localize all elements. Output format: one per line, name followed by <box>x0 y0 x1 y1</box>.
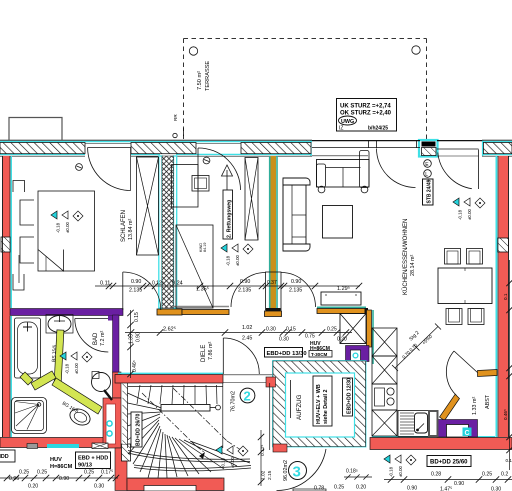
bed <box>38 191 95 271</box>
elevator label box HUV+ELV <box>313 376 332 426</box>
chartreuse pipe to wc <box>52 378 102 414</box>
purple washing machine diele niche <box>346 346 370 362</box>
svg-text:b/h24/25: b/h24/25 <box>368 126 388 132</box>
kitchen diagonal dimension <box>392 324 441 372</box>
bottom exterior wall red right (kitchen) <box>370 438 512 450</box>
left exterior wall red <box>1 156 11 437</box>
floor badge 3 <box>289 462 307 480</box>
corridor closet 1 <box>172 165 199 208</box>
elevator shaft cyan boundary <box>273 361 366 447</box>
rettungsweg arrow <box>222 165 233 177</box>
stair left wall hatch pier <box>122 444 131 461</box>
BD+DD 25/60 box kitchen bottom <box>427 456 471 467</box>
terrace corner circle right <box>412 46 420 54</box>
svg-text:76.70m2: 76.70m2 <box>231 391 237 412</box>
svg-text:EBD+DD 12/30: EBD+DD 12/30 <box>347 378 353 414</box>
door: diele double doors at olive wall <box>231 273 266 308</box>
kitchen cabinet column X boxes <box>372 328 397 356</box>
circle symbol corridor <box>203 157 210 164</box>
dimension chain upper (y=286) <box>95 285 360 287</box>
nightstand lower <box>20 237 34 263</box>
svg-text:96.02m2: 96.02m2 <box>283 460 289 481</box>
svg-text:2. Rettungsweg: 2. Rettungsweg <box>227 200 233 238</box>
svg-text:UK STURZ =+2,74: UK STURZ =+2,74 <box>340 104 391 110</box>
svg-text:0.90: 0.90 <box>291 279 301 285</box>
dimension vertical chain right edge <box>509 260 511 470</box>
svg-text:1.35⁵: 1.35⁵ <box>196 286 209 293</box>
svg-text:C: C <box>465 430 470 437</box>
nightstand upper <box>20 200 34 225</box>
svg-text:1.47⁵: 1.47⁵ <box>440 487 452 491</box>
svg-text:EBD + HDD: EBD + HDD <box>78 456 108 462</box>
top wall hatch band mid <box>131 143 196 154</box>
bottom labels: HDD box far left <box>0 450 15 462</box>
coffee table <box>323 206 353 239</box>
schlafen closet top-left <box>13 181 25 193</box>
svg-text:0.17⁵: 0.17⁵ <box>101 470 113 476</box>
uk sturz box <box>337 99 397 132</box>
chartreuse pipe lower diagonal <box>31 371 56 390</box>
chairs <box>445 249 485 325</box>
svg-text:1.29⁵: 1.29⁵ <box>337 285 350 292</box>
abst orange stub north <box>440 370 498 421</box>
chartreuse pipe vertical <box>20 330 102 414</box>
svg-text:0.96: 0.96 <box>9 476 19 482</box>
top wall outline lines <box>0 139 312 141</box>
orange sill wohnen/kitchen <box>317 306 366 308</box>
purple wall bath east <box>113 315 120 372</box>
landing rect sliver bottom <box>293 489 326 491</box>
svg-text:0.25: 0.25 <box>334 485 344 491</box>
svg-text:0.18⁵: 0.18⁵ <box>346 469 358 475</box>
floor badge 2 <box>240 388 255 403</box>
kitchen X box lower <box>372 410 397 436</box>
svg-text:SCHLAFEN: SCHLAFEN <box>121 210 127 242</box>
stairs handrail bar <box>161 405 210 412</box>
elevation marker bad <box>60 352 92 374</box>
dimension vertical chain stair right x=261 <box>260 430 262 486</box>
svg-text:0.75: 0.75 <box>305 334 315 340</box>
bottom exterior wall red left (bath) <box>0 438 118 448</box>
stairs left fan treads <box>128 393 251 478</box>
stairs upper flight treads <box>128 385 223 404</box>
svg-text:BD+DD 25/60: BD+DD 25/60 <box>430 460 468 466</box>
small dim kitchen bottom <box>344 476 372 478</box>
svg-text:BAD: BAD <box>93 332 99 345</box>
svg-text:0.1: 0.1 <box>503 293 508 300</box>
dresser below bed <box>13 274 24 290</box>
bath right red wall <box>113 372 122 398</box>
svg-text:HUV+ELV + WB: HUV+ELV + WB <box>316 384 322 424</box>
svg-text:2.135: 2.135 <box>238 288 251 294</box>
svg-text:0.90: 0.90 <box>136 332 142 342</box>
dimension vertical chain x=130.5 <box>130 310 132 378</box>
doors: corridor terrace door <box>197 148 199 190</box>
svg-text:0.90: 0.90 <box>407 486 417 491</box>
svg-text:AUFZUG: AUFZUG <box>296 394 303 420</box>
svg-text:STB 24/49: STB 24/49 <box>427 179 433 203</box>
svg-text:90/13: 90/13 <box>78 463 92 469</box>
svg-text:0.20: 0.20 <box>28 484 38 490</box>
stair walking line dash-dot <box>142 388 244 452</box>
bad wc <box>67 406 92 428</box>
svg-text:2.62⁵: 2.62⁵ <box>163 326 176 333</box>
svg-text:0.11: 0.11 <box>100 281 110 287</box>
svg-text:0.90: 0.90 <box>454 481 464 487</box>
svg-text:7.86 m²: 7.86 m² <box>208 342 214 360</box>
chimney outline top-left <box>9 118 62 141</box>
abst purple washer <box>437 420 478 438</box>
elevator red blocks <box>266 377 276 387</box>
svg-text:2.135: 2.135 <box>289 288 302 294</box>
stove <box>372 384 397 410</box>
stairwell left red wall <box>115 448 127 491</box>
svg-text:0.46⁵: 0.46⁵ <box>503 409 508 420</box>
orange sill (diele closet) <box>182 310 229 315</box>
rettungsweg label box <box>223 190 233 239</box>
bottom small boxes on wall <box>27 444 38 449</box>
EBD+DD 13/30 box diele <box>265 348 303 358</box>
olive partition wall diele/wohnen <box>265 156 282 317</box>
svg-text:13.84 m²: 13.84 m² <box>128 219 134 240</box>
svg-text:EBD+DD 13/30: EBD+DD 13/30 <box>267 351 307 357</box>
kitchen door sill <box>437 148 479 150</box>
elevation marker kitchen bottom <box>384 455 416 477</box>
window pier with lintel (cyan box) <box>419 140 438 157</box>
svg-text:0.30: 0.30 <box>491 487 501 491</box>
terrace dashed outline <box>184 39 427 141</box>
elevator shaft hatched walls <box>273 361 366 447</box>
bad round basin <box>92 373 111 392</box>
svg-text:0.30: 0.30 <box>266 327 276 333</box>
top exterior wall cyan edge <box>0 140 312 156</box>
terrace corner circle left <box>189 47 197 55</box>
svg-text:0.20: 0.20 <box>337 337 347 343</box>
svg-text:IZ: IZ <box>339 126 343 132</box>
svg-text:KÜCHEN/ESSEN/WOHNEN: KÜCHEN/ESSEN/WOHNEN <box>402 219 409 295</box>
doors: kitchen terrace door <box>478 150 480 190</box>
STB label box <box>423 179 434 205</box>
svg-text:0.30: 0.30 <box>94 484 104 490</box>
svg-text:84.19: 84.19 <box>203 242 207 252</box>
svg-text:0.15: 0.15 <box>286 327 296 333</box>
wohnen sofa vertical <box>283 178 310 251</box>
elevation marker bedroom <box>51 211 83 233</box>
svg-text:0.30: 0.30 <box>279 337 289 343</box>
door: stairwell lower door <box>277 449 327 491</box>
circle symbol schlafen <box>76 164 83 171</box>
svg-text:7.50 m²: 7.50 m² <box>197 71 203 90</box>
svg-text:0.12⁵: 0.12⁵ <box>152 281 164 287</box>
svg-text:0.25: 0.25 <box>84 470 94 476</box>
svg-text:0.25: 0.25 <box>327 327 337 333</box>
aufzug inner line <box>290 380 292 418</box>
door: abst door leaf <box>454 351 478 373</box>
sink unit <box>398 411 438 437</box>
dining table <box>438 268 492 304</box>
top wall hatch band left <box>0 143 85 154</box>
svg-text:0.78: 0.78 <box>314 486 324 491</box>
svg-text:3: 3 <box>293 464 301 481</box>
corridor closet 2 with diagonal <box>176 225 213 308</box>
svg-text:2.135: 2.135 <box>129 288 142 294</box>
stairs outline <box>222 383 224 448</box>
orange threshold below crosshatch wall <box>157 309 182 315</box>
T30 label box above elevator <box>309 351 332 358</box>
svg-text:7.2 m²: 7.2 m² <box>100 331 106 346</box>
schacht crosshatch box kitchen <box>340 314 366 344</box>
stair BD box <box>131 412 142 447</box>
svg-text:28.14 m²: 28.14 m² <box>410 255 416 276</box>
schlafen wardrobe (X) <box>137 157 159 255</box>
svg-text:L: L <box>425 172 428 178</box>
svg-text:RR: RR <box>173 114 178 121</box>
interior crosshatch wall fill <box>162 156 174 308</box>
right exterior wall red <box>496 156 508 437</box>
corridor wardrobe right (X) <box>245 158 258 241</box>
bad bathtub <box>15 318 41 378</box>
bad washbasin <box>46 315 73 334</box>
dimension chain diele (y=332) <box>125 332 352 334</box>
svg-text:0.28: 0.28 <box>431 472 441 478</box>
kitchen door circles E L <box>424 160 432 168</box>
svg-text:0.20: 0.20 <box>356 485 366 491</box>
svg-text:2: 2 <box>244 389 251 404</box>
stairs lower rails <box>128 477 222 479</box>
svg-text:H=86CM: H=86CM <box>310 346 330 352</box>
orange wall stub kitchen (vertical) <box>367 310 372 347</box>
cyan edge above kitchen wall <box>372 436 495 438</box>
svg-text:0.25: 0.25 <box>19 470 29 476</box>
svg-text:TERRASSE: TERRASSE <box>205 61 211 91</box>
svg-text:1.33 m²: 1.33 m² <box>472 397 478 415</box>
svg-text:DIELE: DIELE <box>201 345 207 362</box>
svg-text:0.25: 0.25 <box>37 470 47 476</box>
svg-text:UWG: UWG <box>341 119 354 125</box>
wohnen sofa top <box>317 151 370 193</box>
stair arrow <box>199 452 205 459</box>
abst orange stub slanted <box>440 394 460 420</box>
diele bottom red wall <box>115 375 223 384</box>
elevator label box EBD+DD 12/30 <box>343 378 353 416</box>
svg-text:T-30CM: T-30CM <box>311 352 328 357</box>
cyan edge above diele wall <box>118 372 223 374</box>
svg-text:0.90: 0.90 <box>131 279 141 285</box>
svg-text:0.37: 0.37 <box>267 280 277 286</box>
bad shower <box>12 398 47 434</box>
door: apartment entrance (diele to stairwell) <box>222 338 224 374</box>
svg-text:ABST: ABST <box>485 394 491 409</box>
sideboard top wall <box>321 292 361 305</box>
doors: wohnen terrace door <box>377 149 416 188</box>
bottom dimension chain left (y=478) <box>0 477 118 479</box>
svg-text:1.02: 1.02 <box>261 470 267 480</box>
rain pipe RR circle <box>173 133 177 137</box>
interior crosshatch wall (schlafen/diele) cyan edges <box>159 156 162 308</box>
EBD+HDD box bottom left <box>76 452 111 469</box>
purple wall bath north <box>10 309 123 316</box>
bed blanket fold <box>38 250 64 272</box>
svg-text:0.24: 0.24 <box>172 281 183 287</box>
door: schlafen room door (south-east) <box>122 272 124 310</box>
svg-text:0.46⁵: 0.46⁵ <box>132 360 138 372</box>
top wall right hatch <box>482 140 512 156</box>
svg-text:0.2: 0.2 <box>501 472 508 478</box>
svg-text:HUV: HUV <box>50 457 62 463</box>
window sill lines living room <box>312 147 420 149</box>
svg-text:1.02: 1.02 <box>242 325 252 331</box>
elevation marker stairwell <box>216 446 248 468</box>
svg-text:0.90: 0.90 <box>240 279 250 285</box>
svg-text:H=86CM: H=86CM <box>50 464 73 470</box>
svg-text:0.90: 0.90 <box>59 476 69 482</box>
svg-text:0.15: 0.15 <box>134 312 140 322</box>
elevation marker wohnen <box>453 198 485 220</box>
svg-text:2.45: 2.45 <box>242 336 252 342</box>
elevation marker diele <box>221 244 253 266</box>
svg-text:0.25: 0.25 <box>482 472 492 478</box>
bottom dimension chain right (y=479) <box>384 479 512 481</box>
doors: schlafen terrace door <box>88 147 131 149</box>
top wall hatch band mid2 <box>241 143 311 154</box>
svg-text:BS 15/5: BS 15/5 <box>51 344 58 362</box>
svg-text:1.35: 1.35 <box>129 334 135 344</box>
sink unit end panel <box>429 411 438 436</box>
svg-text:0.1: 0.1 <box>506 458 512 463</box>
svg-text:BD+DD 26/70: BD+DD 26/70 <box>136 413 142 446</box>
cyan pipe rings in shaft <box>107 421 112 426</box>
svg-text:HDD: HDD <box>0 454 9 460</box>
svg-text:siehe Detail 2: siehe Detail 2 <box>323 390 329 424</box>
door: bad door <box>75 318 108 320</box>
stair bottom red wall <box>127 478 224 491</box>
svg-text:0.12⁵: 0.12⁵ <box>260 445 266 456</box>
svg-text:2.15: 2.15 <box>267 470 273 480</box>
